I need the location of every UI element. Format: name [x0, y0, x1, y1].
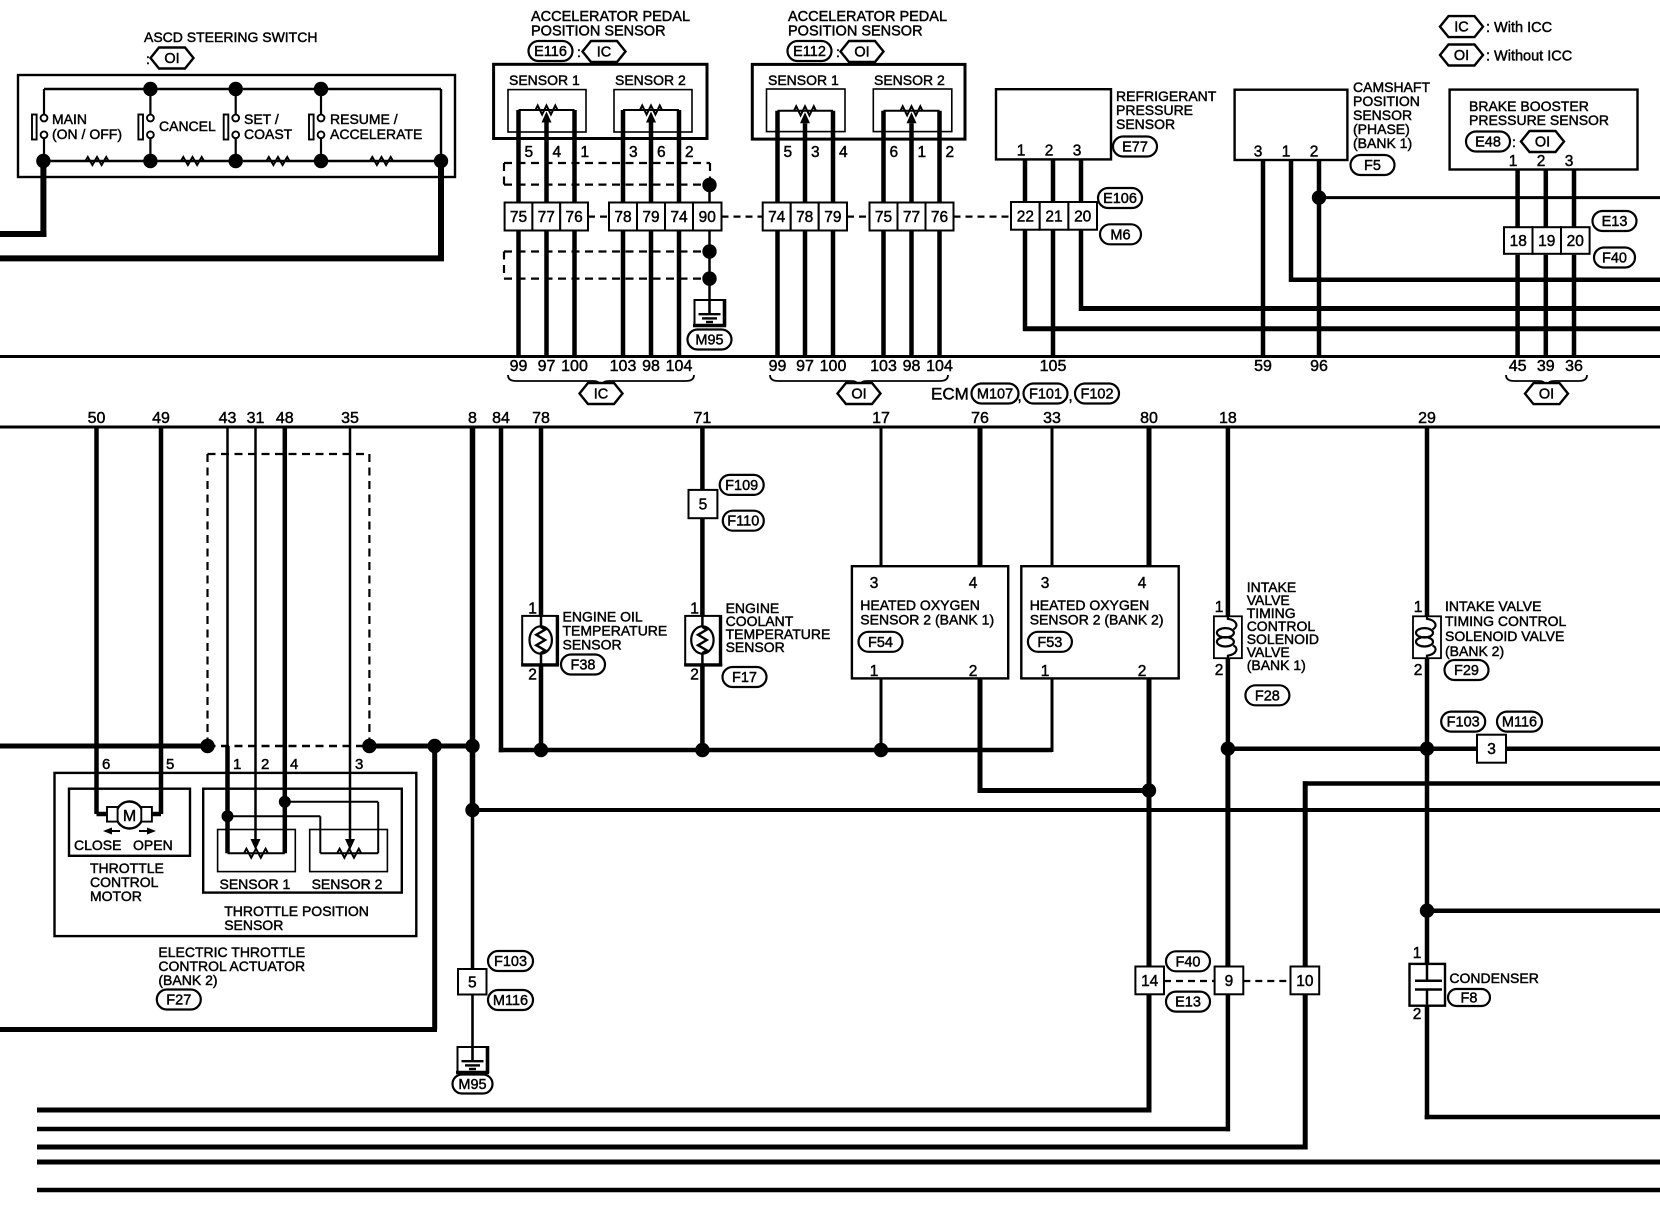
connector row E112 boxes 74 78 79	[763, 203, 847, 231]
svg-text:18: 18	[1510, 233, 1527, 250]
heated oxygen sensor bank2 box F53	[1021, 566, 1178, 678]
F54 pin labels	[870, 575, 978, 680]
OI hexagon brake booster	[1525, 383, 1568, 404]
svg-text:1: 1	[1413, 945, 1422, 962]
node F17-bus1	[695, 743, 709, 757]
svg-text:2: 2	[1138, 663, 1147, 680]
svg-text:3: 3	[1487, 741, 1496, 758]
svg-text:39: 39	[1537, 358, 1555, 375]
node TPS wire4 branch	[279, 796, 291, 808]
svg-text:2: 2	[1414, 662, 1423, 679]
ECM top line	[0, 355, 1660, 358]
ECM connector M107 oval	[972, 384, 1019, 404]
engine oil temp sensor title	[563, 609, 668, 653]
condenser pin2 label	[1413, 1006, 1422, 1023]
connector F40 oval	[1594, 248, 1635, 268]
bus0 dashed segment	[208, 745, 370, 747]
TPS wire1 branch to sensor2	[228, 816, 321, 853]
E112 sensor 1 label	[768, 72, 839, 88]
svg-text:36: 36	[1565, 358, 1583, 375]
ASCD switch box	[18, 75, 455, 177]
wire 29 below bus2	[1425, 749, 1430, 964]
legend OI without ICC	[1440, 45, 1572, 66]
svg-text:M: M	[123, 808, 136, 825]
ASCD output wire left	[0, 161, 46, 237]
svg-text:2: 2	[1413, 1006, 1422, 1023]
camshaft pin 2 wire to ECM 96	[1317, 160, 1322, 357]
wire 49 to motor pin5	[150, 427, 161, 814]
svg-text:IC: IC	[597, 45, 612, 61]
connector F103 oval (bus2)	[1441, 712, 1485, 732]
connector 5 box (F109/F110)	[689, 490, 718, 518]
svg-text:RESUME /: RESUME /	[330, 111, 398, 127]
E112 pin 3 wire	[803, 123, 808, 202]
E116 sensor 1 inner box	[508, 90, 586, 132]
svg-text:74: 74	[670, 209, 688, 226]
E116 shield dashed box lower	[504, 252, 701, 279]
E112 sensor 1 potentiometer	[778, 106, 834, 123]
wire 8 vertical	[470, 427, 476, 969]
ECM label	[931, 385, 969, 404]
svg-text:(BANK 1): (BANK 1)	[1247, 657, 1306, 673]
svg-text:M116: M116	[493, 993, 528, 1009]
svg-text:2: 2	[1045, 143, 1054, 160]
svg-text:103: 103	[610, 358, 637, 375]
svg-text:,: ,	[1018, 388, 1022, 405]
throttle control motor title	[90, 860, 164, 904]
svg-text:: Without ICC: : Without ICC	[1486, 49, 1572, 65]
resistor R3	[267, 157, 290, 165]
svg-text:COAST: COAST	[244, 126, 293, 142]
wire 84 to bus1	[499, 427, 1052, 752]
svg-text:E106: E106	[1103, 191, 1137, 207]
E116 sensor 2 label	[615, 72, 686, 88]
svg-text:14: 14	[1141, 973, 1159, 990]
svg-text:M116: M116	[1502, 715, 1537, 731]
svg-text:2: 2	[1537, 153, 1546, 170]
svg-text:SENSOR: SENSOR	[1116, 116, 1175, 132]
svg-text:35: 35	[341, 410, 359, 427]
svg-text:99: 99	[769, 358, 787, 375]
svg-text:SENSOR: SENSOR	[563, 637, 622, 653]
camshaft sensor title	[1353, 79, 1430, 151]
svg-text:F27: F27	[166, 993, 191, 1009]
bus1 corner up to F53 pin1	[1051, 678, 1054, 752]
E116 pin 3 wire	[621, 110, 626, 203]
E112 sensor 2 potentiometer	[884, 106, 940, 123]
E112 sensor 2 inner box	[873, 89, 952, 132]
svg-text:IC: IC	[594, 387, 609, 403]
ECM pin label 96	[1310, 358, 1328, 375]
heated oxygen sensor bank1 box F54	[852, 566, 1008, 678]
wire condenser to bottom right line	[1425, 1006, 1660, 1120]
wire 43 to TPS pin1	[226, 427, 229, 853]
svg-text:3: 3	[1073, 143, 1082, 160]
connector E77 oval	[1113, 137, 1157, 157]
svg-text:SENSOR: SENSOR	[726, 639, 785, 655]
ASCD top bus wire	[44, 89, 441, 161]
switch CANCEL	[138, 89, 216, 161]
node shield junction lower	[702, 271, 716, 285]
brake booster title	[1469, 98, 1609, 128]
ASCD bottom bus wire	[43, 160, 441, 162]
svg-text:E13: E13	[1175, 995, 1201, 1011]
refrigerant pin labels	[1017, 143, 1082, 160]
wire 20 to right edge bus	[1079, 230, 1660, 311]
E116 pin 5 wire	[516, 110, 521, 203]
intake valve timing solenoid F28 coil	[1214, 616, 1242, 658]
svg-text:3: 3	[1565, 153, 1574, 170]
ECM pin labels 99-104 (OI)	[769, 358, 953, 375]
node condenser branch	[1420, 904, 1434, 918]
svg-text:20: 20	[1074, 208, 1092, 225]
TPS shield dashed box	[208, 454, 370, 745]
svg-text:(BANK 1): (BANK 1)	[1353, 135, 1412, 151]
svg-text:F110: F110	[727, 514, 759, 530]
svg-text:CLOSE: CLOSE	[74, 837, 121, 853]
wire 71 lower to bus1	[700, 665, 705, 750]
svg-text:75: 75	[510, 209, 527, 226]
svg-text:E13: E13	[1602, 214, 1628, 230]
svg-text:2: 2	[1310, 144, 1319, 161]
ground M95 oval (wire 8)	[453, 1075, 493, 1094]
bottom line 5	[37, 1188, 1660, 1193]
svg-text:76: 76	[931, 209, 948, 226]
legend IC with ICC	[1440, 16, 1552, 37]
svg-text:10: 10	[1296, 973, 1314, 990]
svg-text:1: 1	[1414, 599, 1423, 616]
svg-text:4: 4	[290, 756, 298, 773]
svg-text:SOLENOID VALVE: SOLENOID VALVE	[1445, 628, 1564, 644]
wire 31 to TPS pin2	[251, 427, 261, 850]
svg-text:SENSOR 2: SENSOR 2	[615, 72, 686, 88]
F28 title	[1247, 579, 1319, 673]
camshaft pin 3 wire to ECM 59	[1261, 160, 1266, 357]
svg-text:96: 96	[1310, 358, 1328, 375]
svg-text:4: 4	[969, 575, 978, 592]
brace IC group	[508, 375, 694, 387]
svg-text:F40: F40	[1176, 954, 1201, 970]
connector 10 box	[1291, 967, 1320, 995]
svg-text:E116: E116	[534, 44, 567, 60]
svg-text:98: 98	[903, 358, 921, 375]
connector E13 oval (bottom)	[1166, 992, 1210, 1012]
E116 sensor 1 potentiometer	[519, 106, 575, 123]
ECM pin label 59	[1254, 358, 1272, 375]
ground M95 oval	[688, 330, 732, 350]
svg-text:1: 1	[1041, 663, 1050, 680]
svg-text:4: 4	[839, 144, 848, 161]
svg-text:OI: OI	[854, 45, 869, 61]
svg-text:E112: E112	[793, 44, 826, 60]
svg-text:75: 75	[875, 209, 892, 226]
TPS wire4 branch to sensor2	[285, 802, 378, 853]
connector F27 oval	[157, 990, 201, 1010]
node F38-bus1	[534, 743, 548, 757]
svg-text:76: 76	[971, 410, 989, 427]
node TPS wire1 branch	[222, 810, 234, 822]
svg-text:M95: M95	[695, 333, 723, 349]
ASCD output wire right	[0, 161, 444, 258]
E116 sensor 2 potentiometer	[623, 106, 679, 123]
svg-text:17: 17	[872, 410, 890, 427]
brake booster OI hexagon	[1521, 131, 1564, 152]
E116 pin 6 wire	[649, 123, 654, 203]
engine oil temp sensor pin1 label	[528, 601, 537, 618]
wire 29 to F29	[1425, 427, 1430, 616]
E116 pin 1 wire	[572, 110, 577, 203]
svg-text:59: 59	[1254, 358, 1272, 375]
connector F5 oval	[1351, 155, 1395, 175]
camshaft position sensor box	[1235, 90, 1348, 160]
svg-text:SENSOR 2 (BANK 2): SENSOR 2 (BANK 2)	[1030, 612, 1164, 628]
wire 14 lower	[1147, 994, 1152, 1112]
ECM pin label 105	[1040, 358, 1067, 375]
svg-text:SENSOR 2 (BANK 1): SENSOR 2 (BANK 1)	[860, 612, 994, 628]
connector E106 oval	[1098, 188, 1142, 208]
svg-text:SENSOR 2: SENSOR 2	[312, 876, 383, 892]
bus0 wire left segment	[0, 744, 208, 749]
svg-text:SENSOR 1: SENSOR 1	[768, 72, 839, 88]
connector link dashed	[588, 216, 609, 218]
E116 pin labels	[525, 144, 694, 161]
ASCD OI hexagon	[146, 48, 194, 69]
svg-text:1: 1	[233, 756, 241, 773]
node bus0 down-branch	[428, 739, 442, 753]
motor open arrow	[139, 828, 156, 835]
node F54-bus1	[874, 743, 888, 757]
svg-text:ECM: ECM	[931, 385, 969, 404]
connector F110 oval	[723, 511, 764, 531]
wire 78 upper	[539, 427, 544, 616]
svg-text:(ON / OFF): (ON / OFF)	[52, 126, 122, 142]
F28 pin2 label	[1215, 662, 1224, 679]
F53 pin2 wire down	[1147, 678, 1152, 966]
svg-text:CANCEL: CANCEL	[159, 118, 216, 134]
connector 9 box	[1215, 967, 1244, 995]
TPS sensor2 track	[320, 849, 378, 858]
bottom line 4	[37, 1160, 1660, 1165]
svg-text:3: 3	[1254, 144, 1263, 161]
svg-text:F40: F40	[1602, 251, 1627, 267]
svg-text:77: 77	[903, 209, 920, 226]
condenser branch line right	[1427, 908, 1660, 913]
camshaft pin 2 branch line to right edge	[1319, 196, 1660, 199]
ASCD bottom bus junction dots	[36, 154, 448, 168]
E112 pin labels	[784, 144, 955, 161]
svg-text:77: 77	[538, 209, 555, 226]
F29 pin2 label	[1414, 662, 1423, 679]
ECM pin labels 99-104 (IC)	[510, 358, 693, 375]
svg-text:80: 80	[1140, 410, 1158, 427]
svg-text:OI: OI	[1539, 387, 1554, 403]
E112 pin 2 wire	[937, 111, 942, 203]
wire 22 to left edge bus	[1023, 230, 1660, 331]
TPS sensor2 inner box	[310, 830, 388, 872]
TPS sensor1 track	[228, 849, 285, 858]
connector F29 oval	[1445, 660, 1489, 680]
svg-text:OI: OI	[164, 51, 179, 67]
svg-text:OI: OI	[1535, 135, 1550, 151]
svg-text:6: 6	[657, 144, 666, 161]
wire 33 to F53 pin3	[1051, 427, 1054, 566]
throttle position sensor title	[224, 903, 369, 933]
camshaft pin labels	[1254, 144, 1319, 161]
svg-text:SET /: SET /	[244, 111, 279, 127]
E112 pin 4 wire	[831, 111, 836, 203]
E116 sensor 1 label	[509, 72, 580, 88]
resistor R2	[181, 157, 204, 165]
condenser pin1 label	[1413, 945, 1422, 962]
engine oil temp sensor pin2 label	[528, 667, 537, 684]
svg-text:104: 104	[666, 358, 693, 375]
connector row E112 boxes 75 77 76	[870, 203, 954, 231]
E116 pin 2 wire	[677, 110, 682, 203]
svg-text:M107: M107	[977, 387, 1013, 403]
svg-text:3: 3	[811, 144, 820, 161]
svg-text:: With ICC: : With ICC	[1486, 20, 1552, 36]
TPS sensor labels	[220, 876, 383, 892]
connector E112 oval	[788, 41, 840, 61]
connector F17 oval	[723, 667, 767, 687]
svg-text:78: 78	[614, 209, 631, 226]
engine oil temperature sensor F38	[521, 615, 559, 666]
svg-text:(BANK 2): (BANK 2)	[1445, 643, 1504, 659]
E112 sensor 2 label	[874, 72, 945, 88]
svg-text:M6: M6	[1110, 227, 1130, 243]
wire down-branch to lower-left line	[0, 746, 437, 1030]
motor close open labels	[74, 837, 173, 853]
svg-text:79: 79	[642, 209, 659, 226]
refrigerant pin 2 wire	[1051, 159, 1056, 202]
wire 48 to TPS pin4	[283, 427, 288, 853]
switch RESUME/ACCELERATE	[309, 89, 422, 161]
svg-text::: :	[1512, 134, 1516, 150]
camshaft pin 1 wire to right edge	[1289, 160, 1660, 282]
accelerator pedal position sensor E112 title	[788, 9, 947, 40]
svg-text:F102: F102	[1080, 387, 1113, 403]
condenser F8	[1410, 964, 1446, 1006]
engine coolant temp sensor title	[726, 600, 831, 655]
switch SET/COAST	[224, 89, 293, 161]
svg-text:20: 20	[1567, 233, 1585, 250]
ECM bottom line	[0, 426, 1660, 429]
svg-text:99: 99	[510, 358, 528, 375]
IC hexagon below brace	[580, 383, 623, 404]
svg-text:29: 29	[1418, 410, 1436, 427]
svg-text:1: 1	[1282, 144, 1291, 161]
E112 pin 1 wire	[909, 123, 914, 202]
svg-text:31: 31	[247, 410, 265, 427]
svg-text:1: 1	[870, 663, 879, 680]
engine coolant temperature sensor F17	[684, 615, 722, 666]
svg-text:2: 2	[685, 144, 694, 161]
connector 14 box	[1135, 967, 1164, 995]
pin labels 6 5 1 2 4 3	[102, 756, 363, 773]
svg-text:4: 4	[553, 144, 562, 161]
svg-text:76: 76	[565, 209, 582, 226]
svg-text:E77: E77	[1122, 140, 1148, 156]
F29 pin2 wire to bus2	[1425, 658, 1430, 749]
svg-text:PRESSURE SENSOR: PRESSURE SENSOR	[1469, 112, 1609, 128]
svg-text::: :	[577, 44, 581, 60]
svg-text:OPEN: OPEN	[133, 837, 173, 853]
ECM connector F102 oval	[1075, 384, 1119, 404]
OI hexagon below brace	[838, 383, 881, 404]
intake valve timing solenoid F29 coil	[1413, 616, 1441, 658]
svg-text:22: 22	[1017, 208, 1034, 225]
svg-text:97: 97	[796, 358, 814, 375]
E112 pin 6 wire	[881, 111, 886, 203]
horizontal line 810	[473, 808, 1660, 812]
svg-text:78: 78	[796, 209, 813, 226]
wire 10 upper	[1303, 781, 1660, 966]
wire 18 to F28	[1226, 427, 1231, 616]
svg-text:74: 74	[768, 209, 786, 226]
svg-text:2: 2	[1215, 662, 1224, 679]
E116 sensor 2 inner box	[614, 90, 692, 132]
svg-text:97: 97	[538, 358, 556, 375]
link dashed 9-10	[1243, 980, 1290, 982]
svg-text:6: 6	[102, 756, 110, 773]
svg-text:71: 71	[694, 410, 712, 427]
wire 9 upper	[1225, 749, 1230, 967]
electric throttle control actuator box F27	[55, 773, 417, 936]
svg-text:SENSOR 1: SENSOR 1	[509, 72, 580, 88]
resistor R1	[86, 157, 109, 165]
wire 21 to ECM 105	[1051, 230, 1056, 357]
ASCD top bus junction dots	[143, 82, 328, 96]
svg-text:6: 6	[890, 144, 899, 161]
ASCD steering switch title	[144, 29, 317, 45]
throttle position sensor box	[203, 789, 402, 893]
svg-text:43: 43	[219, 410, 237, 427]
connector F40 oval (bottom)	[1166, 951, 1210, 971]
F54 pin1 wire to bus1	[880, 678, 883, 750]
E112 pin 5 wire	[775, 111, 780, 203]
svg-text:ASCD STEERING SWITCH: ASCD STEERING SWITCH	[144, 29, 317, 45]
brake booster pin labels	[1509, 153, 1574, 170]
svg-text:F103: F103	[1447, 715, 1480, 731]
connector F53 oval	[1028, 632, 1072, 652]
connector M116 oval (wire8)	[488, 990, 533, 1010]
svg-text:IC: IC	[1454, 20, 1469, 36]
svg-text:F109: F109	[725, 478, 758, 494]
F53 title	[1030, 597, 1164, 628]
svg-text:5: 5	[525, 144, 534, 161]
svg-text:49: 49	[152, 410, 170, 427]
svg-text:POSITION SENSOR: POSITION SENSOR	[531, 24, 666, 40]
svg-text:2: 2	[528, 667, 537, 684]
svg-text:3: 3	[629, 144, 638, 161]
svg-text:2: 2	[969, 663, 978, 680]
node F28-bus2	[1221, 742, 1235, 756]
ECM bottom pin labels	[88, 410, 1436, 427]
svg-text:2: 2	[690, 667, 699, 684]
svg-text:33: 33	[1043, 410, 1061, 427]
svg-text:POSITION SENSOR: POSITION SENSOR	[788, 24, 923, 40]
motor close arrow	[103, 828, 120, 835]
svg-text:50: 50	[88, 410, 106, 427]
svg-text:4: 4	[1138, 575, 1147, 592]
svg-text:MOTOR: MOTOR	[90, 888, 142, 904]
E116 pin 4 wire	[544, 123, 549, 203]
svg-text:(BANK 2): (BANK 2)	[158, 972, 217, 988]
connector 5 box (F103/M116)	[458, 969, 487, 995]
E116 IC hexagon	[583, 41, 626, 62]
connector F54 oval	[859, 632, 903, 652]
svg-text:OI: OI	[851, 387, 866, 403]
